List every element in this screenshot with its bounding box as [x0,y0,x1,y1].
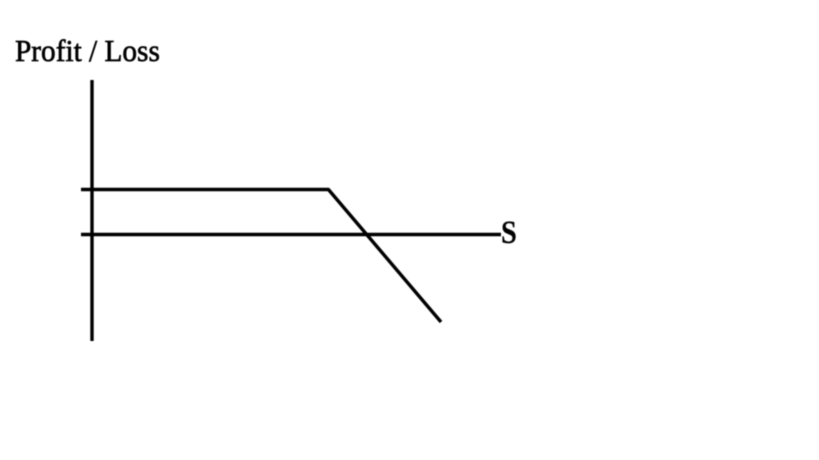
wire horizontal S axis [81,233,501,236]
axis label Profit / Loss [15,35,160,66]
wire vertical profit axis [90,80,93,341]
wire diagonal payoff segment [328,189,441,322]
node S label [501,217,517,250]
wire flat payoff segment [81,188,329,191]
